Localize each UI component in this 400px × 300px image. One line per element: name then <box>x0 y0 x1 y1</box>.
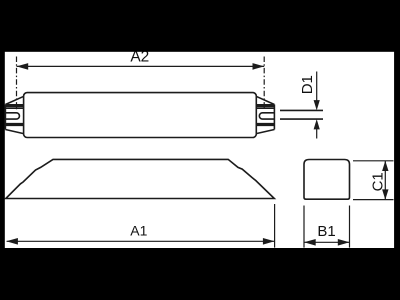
svg-text:C1: C1 <box>369 172 386 191</box>
left flange outer edge <box>4 105 6 130</box>
C1 extension line bottom <box>353 199 394 201</box>
right flange band line 3 <box>256 107 274 109</box>
svg-text:D1: D1 <box>299 75 316 94</box>
dimension line A2 <box>17 65 265 67</box>
dimension D1 upper leader <box>316 72 318 102</box>
svg-text:A1: A1 <box>130 223 147 239</box>
C1 top arrowhead <box>382 161 388 171</box>
svg-text:B1: B1 <box>317 223 335 240</box>
C1 bottom arrowhead <box>382 189 388 199</box>
right flange band line 1 <box>256 104 274 106</box>
A1 extension line right <box>274 204 276 248</box>
right mask bar <box>394 0 400 300</box>
right flange bottom taper <box>256 130 274 134</box>
right flange slot <box>259 113 274 119</box>
left flange band line 1 <box>5 104 23 106</box>
left flange lower line 2 <box>5 124 23 126</box>
C1 extension line top <box>353 160 394 162</box>
bottom view outline <box>6 159 275 198</box>
left flange lower line 1 <box>5 123 23 125</box>
left flange slot <box>5 113 19 119</box>
left flange bottom taper <box>5 130 23 134</box>
right flange top slant <box>256 96 274 104</box>
right flange lower line 1 <box>256 123 274 125</box>
dimension line C1 <box>384 161 386 200</box>
A2 right arrowhead <box>253 63 265 70</box>
B1 left arrowhead <box>304 239 316 246</box>
right flange band line 2 <box>256 105 274 107</box>
B1 extension line left <box>303 206 305 248</box>
D1 down arrowhead <box>314 100 320 110</box>
dimension line A1 <box>7 240 275 242</box>
right flange lower line 2 <box>256 124 274 126</box>
dimension D1 lower leader <box>316 128 318 139</box>
end view outline <box>304 160 350 200</box>
centerline right (A2 extension, dash-dot) <box>263 57 265 110</box>
bottom mask bar <box>0 248 400 300</box>
left flange band line 2 <box>5 105 23 107</box>
left mask bar <box>0 0 5 300</box>
B1 extension line right <box>349 206 351 248</box>
clip reference upper line <box>280 109 323 111</box>
right flange outer edge <box>273 105 275 130</box>
clip reference lower line <box>280 118 323 120</box>
white drawing sheet <box>5 52 395 248</box>
B1 right arrowhead <box>338 239 350 246</box>
A1 right arrowhead <box>263 238 275 245</box>
left flange top slant <box>5 96 23 104</box>
centerline left (A2 extension, dash-dot) <box>16 57 18 111</box>
A2 left arrowhead <box>17 63 29 70</box>
left flange band line 3 <box>5 107 23 109</box>
dimension line B1 <box>304 241 350 243</box>
top mask bar <box>0 0 400 52</box>
ballast body (side view) <box>24 93 257 138</box>
D1 up arrowhead <box>314 119 320 129</box>
A1 left arrowhead <box>6 238 18 245</box>
